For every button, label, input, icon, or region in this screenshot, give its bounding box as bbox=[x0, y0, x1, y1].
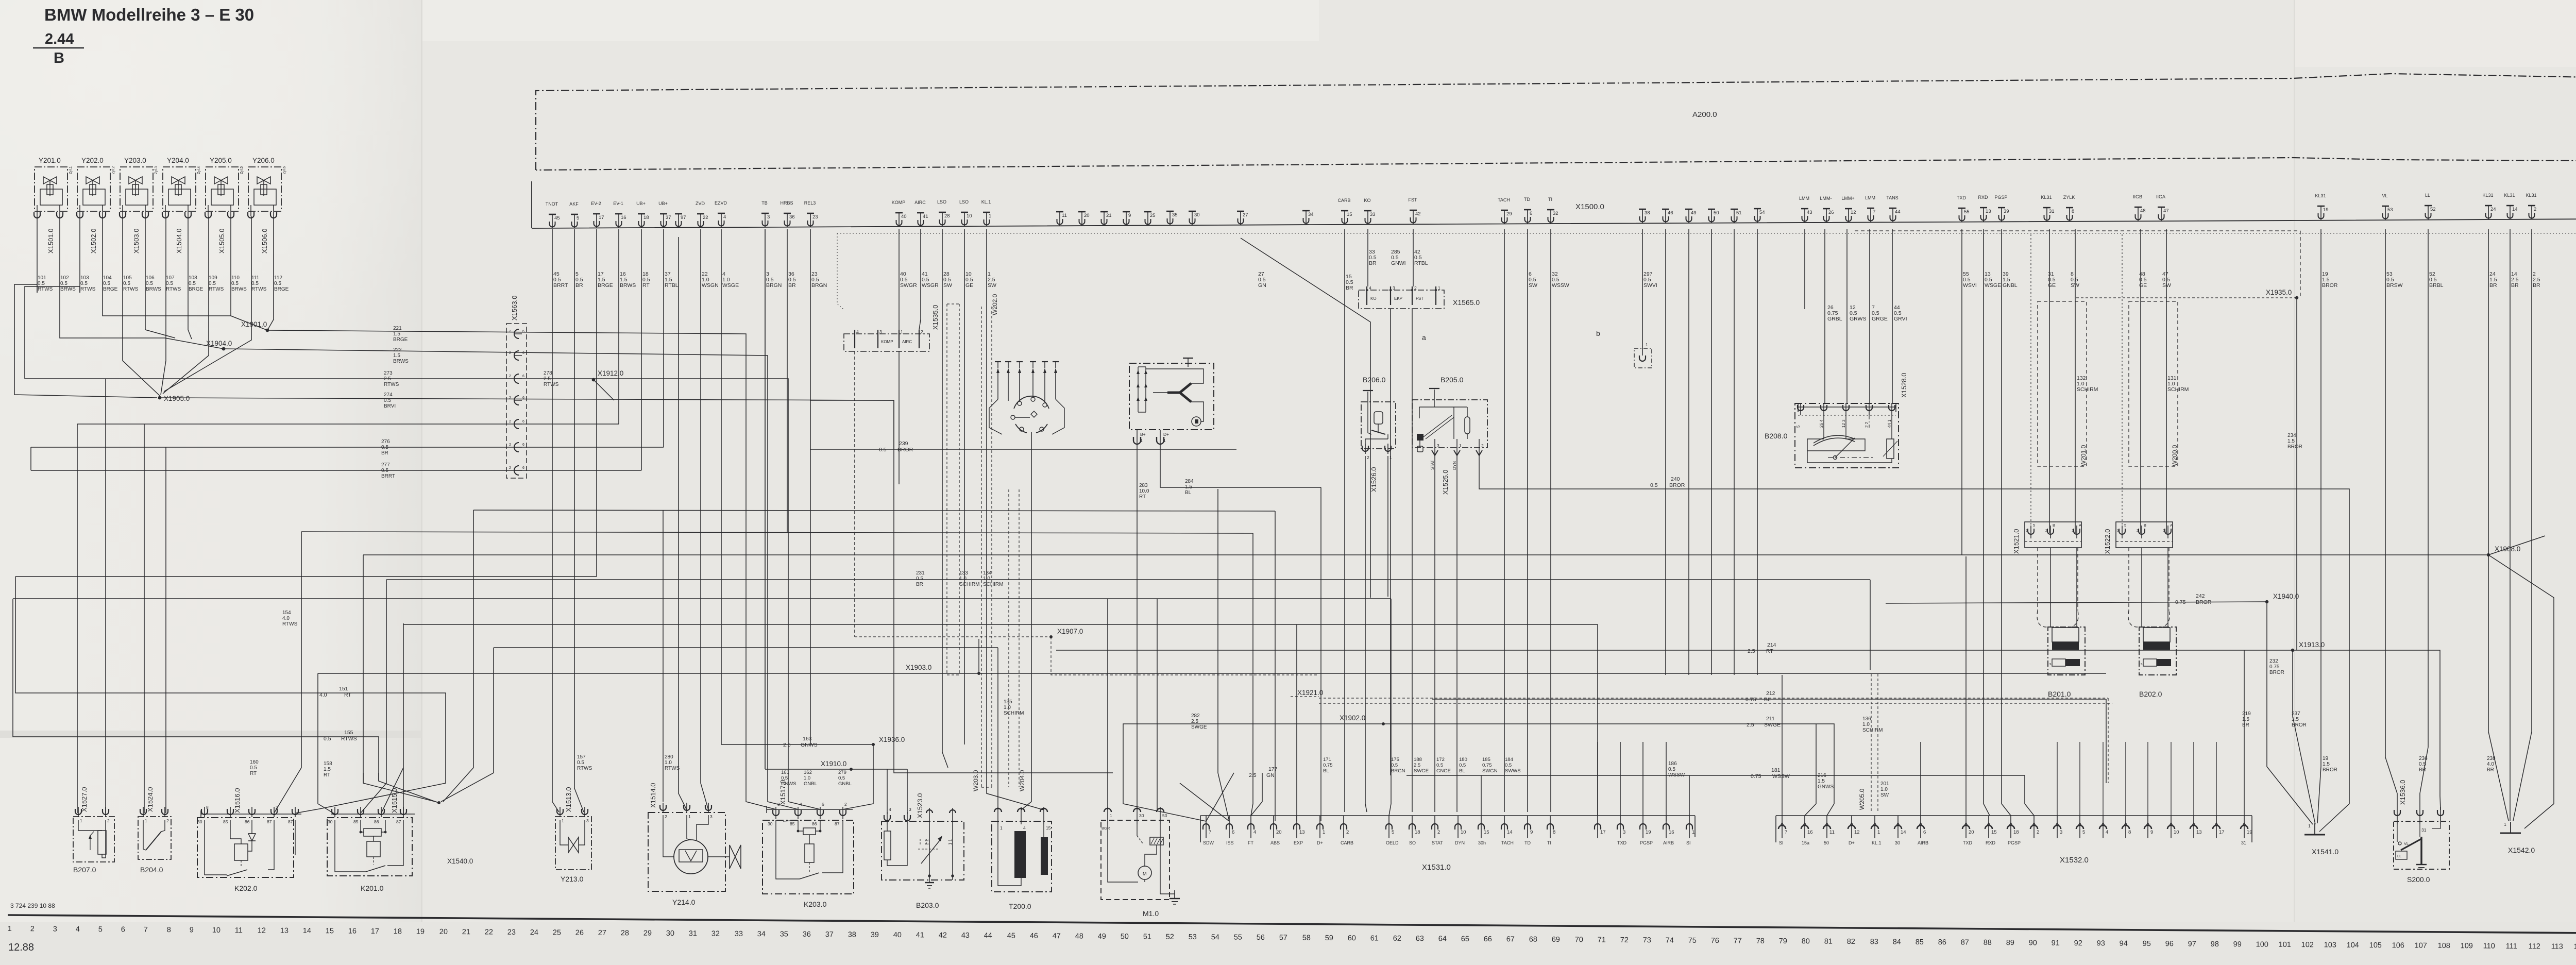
svg-text:X1910.0: X1910.0 bbox=[821, 760, 846, 768]
svg-text:WSSW: WSSW bbox=[1668, 772, 1685, 778]
svg-text:ABS: ABS bbox=[1270, 840, 1280, 845]
svg-text:284: 284 bbox=[1185, 479, 1194, 484]
svg-text:X1936.0: X1936.0 bbox=[879, 736, 905, 743]
svg-text:4: 4 bbox=[1023, 825, 1026, 831]
svg-text:X1542.0: X1542.0 bbox=[2508, 846, 2535, 854]
svg-text:GNWS: GNWS bbox=[1818, 784, 1834, 790]
svg-text:0.75: 0.75 bbox=[1482, 763, 1492, 768]
svg-text:GNWS: GNWS bbox=[801, 742, 818, 748]
svg-text:55: 55 bbox=[1964, 209, 1970, 215]
svg-text:283: 283 bbox=[1139, 483, 1148, 488]
svg-text:DYN: DYN bbox=[1455, 840, 1465, 845]
svg-text:Zyl.5: Zyl.5 bbox=[240, 166, 244, 174]
svg-text:KL31: KL31 bbox=[2482, 193, 2493, 198]
svg-text:12: 12 bbox=[1851, 210, 1856, 215]
svg-text:BRWS: BRWS bbox=[60, 286, 76, 292]
svg-text:36: 36 bbox=[803, 930, 811, 939]
svg-text:9: 9 bbox=[1530, 829, 1533, 835]
svg-text:39: 39 bbox=[2004, 209, 2009, 214]
svg-text:1: 1 bbox=[1140, 438, 1143, 443]
svg-text:BR: BR bbox=[2419, 767, 2426, 773]
svg-text:15: 15 bbox=[1991, 829, 1997, 835]
svg-text:W204.0: W204.0 bbox=[1019, 770, 1026, 791]
svg-text:BR: BR bbox=[2489, 282, 2497, 289]
svg-text:7: 7 bbox=[1785, 829, 1787, 835]
svg-text:VL: VL bbox=[2382, 193, 2387, 198]
svg-text:10: 10 bbox=[212, 926, 221, 935]
svg-text:WSGN: WSGN bbox=[702, 282, 719, 289]
svg-text:X1532.0: X1532.0 bbox=[2060, 856, 2089, 865]
svg-text:13: 13 bbox=[1299, 829, 1305, 835]
svg-text:27: 27 bbox=[598, 929, 606, 937]
svg-text:1: 1 bbox=[1646, 342, 1648, 347]
svg-text:4: 4 bbox=[1253, 829, 1256, 835]
svg-text:A: A bbox=[2079, 523, 2081, 528]
svg-text:103: 103 bbox=[80, 275, 89, 281]
svg-text:2.5: 2.5 bbox=[1249, 772, 1257, 778]
svg-text:84: 84 bbox=[1893, 938, 1901, 946]
svg-text:1.5: 1.5 bbox=[2287, 438, 2295, 444]
svg-text:1.5: 1.5 bbox=[393, 353, 400, 359]
svg-text:Y206.0: Y206.0 bbox=[252, 157, 275, 164]
svg-text:21: 21 bbox=[1106, 213, 1112, 218]
svg-text:b: b bbox=[1596, 329, 1600, 337]
svg-text:52: 52 bbox=[1166, 933, 1174, 941]
svg-text:6: 6 bbox=[1232, 829, 1234, 835]
svg-text:3: 3 bbox=[53, 925, 57, 934]
svg-text:SCHIRM: SCHIRM bbox=[983, 582, 1003, 587]
svg-text:X1506.0: X1506.0 bbox=[261, 229, 268, 253]
svg-text:SCHIRM: SCHIRM bbox=[2167, 386, 2189, 393]
svg-text:0.5: 0.5 bbox=[166, 281, 173, 286]
svg-text:B206.0: B206.0 bbox=[1363, 376, 1386, 384]
svg-text:3: 3 bbox=[879, 329, 882, 334]
svg-text:38: 38 bbox=[848, 930, 856, 939]
svg-text:185: 185 bbox=[1482, 757, 1490, 763]
svg-text:LSO: LSO bbox=[959, 199, 969, 205]
svg-text:30: 30 bbox=[1139, 813, 1144, 818]
svg-text:BROR: BROR bbox=[2269, 670, 2284, 675]
svg-text:0.5: 0.5 bbox=[38, 281, 45, 286]
svg-text:239: 239 bbox=[899, 441, 908, 447]
svg-text:108: 108 bbox=[2438, 942, 2450, 950]
svg-text:Y201.0: Y201.0 bbox=[39, 157, 61, 164]
svg-text:3: 3 bbox=[1393, 285, 1395, 291]
svg-text:6: 6 bbox=[522, 375, 524, 378]
svg-text:34: 34 bbox=[757, 930, 766, 938]
svg-text:45: 45 bbox=[1007, 932, 1015, 940]
svg-text:1.5: 1.5 bbox=[2242, 717, 2249, 722]
svg-text:SWGE: SWGE bbox=[1191, 724, 1207, 730]
svg-text:1.5: 1.5 bbox=[1185, 484, 1192, 490]
svg-text:2.5: 2.5 bbox=[1414, 763, 1420, 768]
svg-text:Zyl.2: Zyl.2 bbox=[112, 166, 115, 174]
svg-text:B204.0: B204.0 bbox=[140, 866, 163, 874]
svg-text:LMM+: LMM+ bbox=[1841, 196, 1854, 201]
svg-text:Zyl.4: Zyl.4 bbox=[197, 166, 201, 174]
svg-text:AKF: AKF bbox=[569, 201, 579, 207]
svg-text:104: 104 bbox=[103, 275, 112, 281]
svg-text:81: 81 bbox=[1824, 938, 1833, 946]
svg-text:20: 20 bbox=[1276, 829, 1282, 835]
svg-text:36: 36 bbox=[789, 214, 795, 220]
svg-text:1: 1 bbox=[1459, 443, 1462, 448]
svg-text:3: 3 bbox=[2117, 528, 2119, 533]
svg-text:85: 85 bbox=[353, 819, 359, 824]
svg-text:1: 1 bbox=[1438, 285, 1440, 291]
svg-text:X1563.0: X1563.0 bbox=[511, 296, 518, 320]
svg-text:TXD: TXD bbox=[1963, 840, 1973, 845]
svg-text:BRVI: BRVI bbox=[384, 403, 396, 409]
svg-text:X1513.0: X1513.0 bbox=[565, 787, 572, 812]
svg-text:B+: B+ bbox=[1140, 432, 1146, 437]
svg-text:104: 104 bbox=[2347, 941, 2359, 950]
svg-text:51: 51 bbox=[1736, 210, 1742, 216]
svg-text:274: 274 bbox=[384, 392, 393, 398]
svg-text:18: 18 bbox=[1415, 829, 1420, 835]
svg-text:34: 34 bbox=[1308, 212, 1314, 217]
svg-text:GN: GN bbox=[1266, 772, 1275, 778]
svg-text:6: 6 bbox=[1923, 829, 1926, 835]
svg-text:RTBL: RTBL bbox=[665, 282, 679, 289]
svg-text:PGSP: PGSP bbox=[1640, 840, 1653, 845]
svg-text:BRBL: BRBL bbox=[2429, 282, 2444, 289]
svg-text:0.5: 0.5 bbox=[1391, 763, 1398, 768]
svg-text:BR: BR bbox=[2511, 282, 2519, 289]
svg-text:TANS: TANS bbox=[1886, 195, 1898, 200]
svg-text:SW: SW bbox=[988, 282, 996, 289]
svg-text:X1516.0: X1516.0 bbox=[233, 788, 241, 813]
svg-text:K201.0: K201.0 bbox=[361, 884, 384, 892]
svg-text:6: 6 bbox=[522, 330, 524, 333]
svg-text:15: 15 bbox=[1484, 829, 1489, 835]
svg-text:EKP: EKP bbox=[1394, 296, 1402, 301]
svg-text:1: 1 bbox=[2504, 822, 2506, 827]
svg-text:58: 58 bbox=[1302, 934, 1311, 942]
svg-text:5: 5 bbox=[2033, 523, 2035, 528]
svg-text:X1536.0: X1536.0 bbox=[2399, 780, 2406, 805]
svg-text:237: 237 bbox=[2292, 711, 2300, 717]
svg-text:X1505.0: X1505.0 bbox=[218, 229, 226, 253]
svg-text:BL: BL bbox=[1459, 768, 1465, 774]
svg-text:30: 30 bbox=[666, 929, 674, 938]
svg-text:DYN: DYN bbox=[1452, 461, 1457, 470]
svg-text:0.5: 0.5 bbox=[60, 281, 67, 286]
svg-text:0.5: 0.5 bbox=[384, 398, 391, 403]
svg-text:RTWS: RTWS bbox=[341, 736, 357, 742]
svg-text:3: 3 bbox=[2060, 829, 2062, 835]
svg-text:14: 14 bbox=[1901, 829, 1906, 835]
svg-text:X1905.0: X1905.0 bbox=[164, 395, 190, 402]
svg-text:SWGR: SWGR bbox=[900, 282, 917, 289]
svg-text:LL: LL bbox=[2425, 193, 2430, 198]
svg-text:1: 1 bbox=[901, 329, 903, 334]
svg-text:FST: FST bbox=[1409, 197, 1418, 202]
svg-text:25: 25 bbox=[1150, 213, 1156, 218]
svg-text:X1514.0: X1514.0 bbox=[649, 783, 657, 808]
svg-text:80: 80 bbox=[1802, 937, 1810, 945]
svg-text:155: 155 bbox=[344, 730, 353, 736]
svg-text:2: 2 bbox=[1437, 829, 1440, 835]
svg-text:BR: BR bbox=[2242, 722, 2249, 728]
svg-text:B208.0: B208.0 bbox=[1765, 432, 1788, 440]
svg-text:T200.0: T200.0 bbox=[1009, 902, 1031, 910]
svg-text:CARB: CARB bbox=[1337, 198, 1350, 203]
svg-text:4: 4 bbox=[856, 329, 859, 334]
svg-text:S200.0: S200.0 bbox=[2407, 875, 2430, 884]
svg-text:SCHIRM: SCHIRM bbox=[959, 582, 979, 587]
svg-text:X1503.0: X1503.0 bbox=[132, 229, 140, 253]
svg-text:75: 75 bbox=[1688, 937, 1697, 945]
svg-text:61: 61 bbox=[1370, 934, 1379, 942]
svg-text:BRGE: BRGE bbox=[393, 337, 408, 343]
svg-text:18: 18 bbox=[394, 927, 402, 936]
svg-text:KL.1: KL.1 bbox=[981, 199, 991, 205]
svg-text:2.5: 2.5 bbox=[384, 376, 391, 382]
svg-text:13: 13 bbox=[280, 927, 289, 935]
svg-text:0.5: 0.5 bbox=[209, 281, 216, 286]
svg-text:SW: SW bbox=[943, 282, 952, 289]
svg-text:158: 158 bbox=[324, 761, 332, 767]
svg-text:K202.0: K202.0 bbox=[234, 884, 258, 892]
svg-text:FST: FST bbox=[1416, 296, 1423, 301]
svg-text:1: 1 bbox=[80, 818, 82, 823]
svg-text:8: 8 bbox=[1553, 829, 1555, 835]
svg-text:94: 94 bbox=[2120, 940, 2128, 948]
svg-text:51: 51 bbox=[1143, 933, 1151, 941]
svg-text:Zyl.6: Zyl.6 bbox=[283, 166, 286, 174]
svg-text:IIGB: IIGB bbox=[2133, 194, 2142, 199]
svg-text:BRGE: BRGE bbox=[598, 282, 613, 289]
svg-text:211: 211 bbox=[1766, 716, 1775, 722]
svg-text:111: 111 bbox=[2506, 942, 2517, 951]
svg-text:4: 4 bbox=[2106, 829, 2108, 835]
svg-text:0.5: 0.5 bbox=[80, 281, 88, 286]
svg-text:ISS: ISS bbox=[1226, 840, 1234, 845]
svg-text:216: 216 bbox=[1818, 773, 1826, 778]
svg-text:177: 177 bbox=[1268, 766, 1278, 772]
svg-text:6: 6 bbox=[522, 466, 524, 470]
svg-text:GNGE: GNGE bbox=[1436, 768, 1451, 774]
svg-text:1: 1 bbox=[1877, 829, 1880, 835]
svg-text:101: 101 bbox=[2279, 941, 2291, 949]
svg-text:74: 74 bbox=[1666, 936, 1674, 944]
svg-text:87: 87 bbox=[267, 819, 272, 824]
svg-text:234: 234 bbox=[2287, 433, 2296, 438]
svg-text:16: 16 bbox=[1807, 829, 1813, 835]
svg-text:KOMP: KOMP bbox=[892, 200, 906, 205]
svg-text:7: 7 bbox=[1209, 829, 1211, 835]
svg-text:38: 38 bbox=[1645, 210, 1650, 216]
svg-text:X1526.0: X1526.0 bbox=[1370, 467, 1378, 492]
svg-text:3: 3 bbox=[909, 807, 911, 812]
svg-text:41: 41 bbox=[923, 214, 928, 219]
svg-text:SWWS: SWWS bbox=[1505, 768, 1521, 774]
svg-text:0.5: 0.5 bbox=[250, 765, 257, 771]
svg-text:222: 222 bbox=[393, 347, 402, 353]
svg-text:WSSW: WSSW bbox=[1552, 282, 1569, 289]
svg-text:KL31: KL31 bbox=[2504, 193, 2515, 198]
svg-text:BRGN: BRGN bbox=[811, 282, 827, 289]
svg-text:0.5: 0.5 bbox=[103, 281, 110, 286]
svg-text:184: 184 bbox=[1505, 757, 1513, 763]
svg-text:7: 7 bbox=[1873, 209, 1875, 215]
svg-text:0.5: 0.5 bbox=[381, 445, 388, 450]
svg-text:2: 2 bbox=[844, 802, 847, 807]
svg-text:X1521.0: X1521.0 bbox=[2012, 529, 2020, 554]
svg-text:BL: BL bbox=[1185, 490, 1192, 496]
svg-text:A200.0: A200.0 bbox=[1692, 110, 1717, 119]
svg-text:71: 71 bbox=[1598, 936, 1606, 944]
svg-text:BRSW: BRSW bbox=[2386, 282, 2403, 289]
svg-text:105: 105 bbox=[2369, 941, 2382, 950]
svg-text:24: 24 bbox=[530, 928, 538, 937]
svg-text:HRBS: HRBS bbox=[780, 200, 793, 206]
svg-text:87: 87 bbox=[396, 819, 401, 824]
svg-text:32: 32 bbox=[1553, 211, 1558, 216]
svg-text:277: 277 bbox=[381, 462, 390, 468]
svg-text:27: 27 bbox=[1243, 212, 1248, 218]
svg-text:2: 2 bbox=[2045, 528, 2047, 533]
svg-text:3: 3 bbox=[767, 214, 770, 220]
svg-text:11: 11 bbox=[1829, 829, 1835, 835]
svg-text:AIRB: AIRB bbox=[1663, 840, 1674, 845]
svg-text:0.5: 0.5 bbox=[146, 281, 153, 286]
svg-text:6: 6 bbox=[522, 420, 524, 424]
svg-text:1.0: 1.0 bbox=[804, 775, 810, 781]
svg-text:2.5: 2.5 bbox=[544, 376, 551, 382]
svg-text:16: 16 bbox=[1669, 829, 1674, 835]
svg-text:TD: TD bbox=[1524, 197, 1530, 202]
svg-text:BROR: BROR bbox=[2323, 767, 2337, 773]
svg-text:3: 3 bbox=[1623, 829, 1625, 835]
svg-text:88: 88 bbox=[1984, 939, 1992, 947]
svg-text:28: 28 bbox=[944, 213, 950, 219]
svg-text:2: 2 bbox=[509, 466, 511, 470]
svg-text:31: 31 bbox=[2049, 209, 2055, 214]
svg-text:RTWS: RTWS bbox=[80, 286, 96, 292]
svg-text:39: 39 bbox=[871, 931, 879, 939]
svg-text:AIRC: AIRC bbox=[902, 340, 912, 344]
svg-text:STAT: STAT bbox=[1432, 840, 1443, 845]
svg-text:78: 78 bbox=[1756, 937, 1765, 945]
svg-text:31: 31 bbox=[2421, 827, 2427, 833]
svg-text:B: B bbox=[54, 50, 64, 66]
svg-text:8: 8 bbox=[206, 805, 209, 810]
svg-text:5: 5 bbox=[1392, 829, 1394, 835]
svg-text:GRVI: GRVI bbox=[1894, 316, 1907, 322]
svg-text:FT: FT bbox=[1248, 840, 1253, 845]
svg-text:RT: RT bbox=[642, 282, 650, 289]
svg-text:102: 102 bbox=[60, 275, 69, 281]
svg-text:33: 33 bbox=[1370, 212, 1376, 217]
svg-text:6: 6 bbox=[1530, 211, 1532, 216]
svg-text:KO: KO bbox=[1364, 198, 1370, 203]
svg-text:BROR: BROR bbox=[897, 447, 913, 453]
svg-text:BROR: BROR bbox=[2287, 444, 2302, 450]
svg-text:GNBL: GNBL bbox=[838, 781, 852, 787]
svg-text:4.0: 4.0 bbox=[282, 616, 290, 621]
svg-text:GRWS: GRWS bbox=[1850, 316, 1866, 322]
svg-text:KOMP: KOMP bbox=[881, 340, 893, 344]
svg-text:108: 108 bbox=[189, 275, 197, 281]
svg-text:TI: TI bbox=[1548, 197, 1552, 202]
svg-text:87: 87 bbox=[835, 821, 840, 826]
svg-text:RTWS: RTWS bbox=[123, 286, 139, 292]
svg-text:X1907.0: X1907.0 bbox=[1057, 628, 1083, 635]
svg-text:BL: BL bbox=[1323, 768, 1329, 774]
svg-text:42: 42 bbox=[1415, 211, 1421, 217]
svg-text:SW: SW bbox=[1529, 282, 1537, 289]
svg-text:0.5: 0.5 bbox=[231, 281, 239, 286]
svg-text:BL: BL bbox=[1764, 697, 1771, 703]
svg-text:2.44: 2.44 bbox=[45, 31, 74, 47]
svg-text:19: 19 bbox=[2323, 207, 2329, 213]
svg-text:0.75: 0.75 bbox=[1745, 697, 1756, 703]
svg-text:6: 6 bbox=[121, 926, 125, 934]
svg-text:35: 35 bbox=[780, 930, 788, 938]
svg-text:X1903.0: X1903.0 bbox=[906, 664, 931, 671]
svg-text:EXP: EXP bbox=[1294, 840, 1303, 845]
svg-text:15: 15 bbox=[326, 927, 334, 935]
svg-text:276: 276 bbox=[381, 439, 390, 445]
svg-text:95: 95 bbox=[2143, 940, 2151, 948]
svg-text:WSGE: WSGE bbox=[1985, 282, 2001, 289]
svg-text:X1902.0: X1902.0 bbox=[1340, 714, 1365, 722]
svg-text:2 2: 2 2 bbox=[1865, 421, 1869, 428]
svg-text:280: 280 bbox=[665, 754, 673, 760]
svg-text:5: 5 bbox=[577, 215, 579, 221]
svg-text:IIGA: IIGA bbox=[2156, 194, 2165, 199]
svg-text:BROR: BROR bbox=[2322, 282, 2338, 289]
svg-text:RT: RT bbox=[324, 772, 330, 778]
svg-text:RTWS: RTWS bbox=[577, 766, 592, 771]
svg-text:4: 4 bbox=[76, 925, 80, 934]
svg-text:2: 2 bbox=[166, 818, 169, 823]
svg-text:49: 49 bbox=[1691, 210, 1697, 216]
svg-text:134: 134 bbox=[983, 570, 992, 576]
svg-text:1: 1 bbox=[145, 818, 147, 823]
svg-text:2: 2 bbox=[30, 925, 35, 933]
svg-text:X1541.0: X1541.0 bbox=[2312, 848, 2338, 856]
svg-text:4: 4 bbox=[889, 807, 891, 812]
svg-text:B: B bbox=[2053, 523, 2055, 528]
svg-text:112: 112 bbox=[274, 275, 282, 281]
svg-text:3: 3 bbox=[2026, 528, 2028, 533]
svg-text:42: 42 bbox=[939, 932, 947, 940]
svg-text:10: 10 bbox=[967, 213, 972, 219]
svg-text:96: 96 bbox=[2165, 940, 2174, 948]
svg-text:RT: RT bbox=[1139, 494, 1146, 500]
svg-text:114: 114 bbox=[2574, 943, 2576, 951]
svg-text:RTWS: RTWS bbox=[282, 621, 298, 627]
svg-text:BRWS: BRWS bbox=[393, 359, 409, 364]
svg-text:0.5: 0.5 bbox=[1668, 767, 1675, 772]
svg-text:113: 113 bbox=[2551, 942, 2563, 951]
svg-text:73: 73 bbox=[1643, 936, 1651, 944]
svg-text:VL: VL bbox=[2404, 841, 2409, 846]
svg-text:RTWS: RTWS bbox=[38, 286, 53, 292]
svg-text:SWGE: SWGE bbox=[1764, 722, 1781, 728]
svg-text:X1524.0: X1524.0 bbox=[146, 787, 154, 812]
svg-text:X1527.0: X1527.0 bbox=[80, 787, 88, 812]
svg-text:Y204.0: Y204.0 bbox=[167, 157, 189, 164]
svg-text:10: 10 bbox=[1461, 829, 1466, 835]
svg-text:REL3: REL3 bbox=[804, 200, 816, 206]
svg-text:TACH: TACH bbox=[1501, 840, 1514, 845]
svg-text:X1523.0: X1523.0 bbox=[916, 793, 924, 818]
svg-text:14: 14 bbox=[2512, 207, 2518, 212]
